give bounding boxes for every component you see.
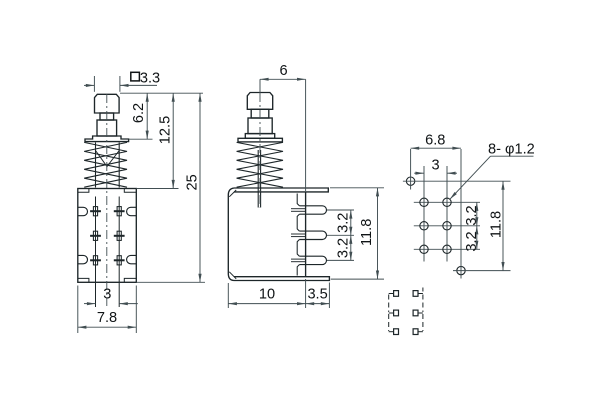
pcb hole r2c1 [420,222,428,230]
dimension 3.3 extension lines [93,76,95,92]
pcb hole r3c2 [443,245,451,253]
side view terminal stub 3 [291,258,306,260]
dimension 3.2 extension rows side view [327,209,354,211]
svg-text:25: 25 [185,174,201,190]
side view terminal prong 2 [299,231,326,239]
dimension 3.3 text [131,72,140,81]
svg-text:3.2: 3.2 [335,213,351,233]
pcb grid column line 1 [423,166,425,262]
hidden terminal connector left 1 [389,293,394,295]
front view pin column line right [118,197,120,308]
side view spring [237,142,283,187]
side view left wall [228,188,234,281]
hidden terminal connector right 2 [418,312,423,314]
dimension 3.5 line [306,303,330,305]
pcb outer hole bottom-right crosslines [453,270,511,272]
side view left wall chamfer top [229,190,236,197]
svg-text:3: 3 [103,287,111,303]
pcb outer hole top-left circle [406,177,414,185]
front view body notch top-left [78,189,89,193]
dimension 6.2 line [146,93,148,139]
svg-text:8- φ1.2: 8- φ1.2 [488,142,535,158]
dimension 7.8 extension lines [77,286,79,334]
front view body [78,189,137,283]
dimension 11.8 extensions side view [330,187,384,189]
dimension 3.3 line and arrows [84,84,94,86]
svg-text:6: 6 [279,63,287,79]
side view stem [257,150,259,208]
hidden terminal square right 3 [413,329,418,335]
front view stem right line [118,142,120,187]
front view pin row1 col1 [93,207,97,216]
hidden terminal square left 2 [394,310,399,316]
hidden terminal square right 1 [413,291,418,297]
side view top plate [234,188,328,192]
label 8-phi1.2 leader [450,156,491,199]
dimension 12.5 extension [136,188,178,190]
front view plunger cap [95,94,120,113]
pcb outer hole top-left crosslines [403,180,511,182]
front view body notch bottom-left [78,278,89,282]
svg-text:6.2: 6.2 [131,103,147,123]
svg-text:3.5: 3.5 [307,287,327,303]
pcb hole r1c2 [443,198,451,206]
dimension 11.8 line side view [377,188,379,279]
side view centerline [259,79,261,93]
side view terminal stub 1 [291,208,306,210]
dimension 6 extension line [305,79,307,191]
front view side cutout lower-right [127,255,137,263]
front view body notch top-right [124,189,136,193]
front view side cutout upper-left [78,207,88,215]
hidden terminal connector left 2 [389,312,394,314]
side view terminal prong 3 [299,256,326,264]
dimension 6.8 line [411,147,461,149]
hidden terminal connector right 3 [418,331,423,333]
front view centerline [106,94,108,306]
svg-text:12.5: 12.5 [158,116,174,144]
hidden terminal square left 1 [394,291,399,297]
dimension 3.2 line side view [350,210,352,260]
side view slot wall 1 [297,214,299,231]
hidden terminal square right 2 [413,310,418,316]
dimension 6.2 flange extension [129,138,153,140]
front view baseline extension [136,281,205,283]
svg-text:11.8: 11.8 [359,219,375,246]
svg-text:6.8: 6.8 [425,132,445,148]
dimension 7.8 line [78,326,137,328]
front view side cutout upper-right [127,207,137,215]
side view slot wall bottom [297,265,299,276]
hidden terminal dashed link right [422,288,424,294]
pcb hole r2c2 [443,222,451,230]
pcb hole r3c1 [420,245,428,253]
side view washer flange [238,138,282,142]
svg-text:3.2: 3.2 [464,231,480,251]
dimension 11.8 pcb line [502,181,504,270]
dimension 12.5 line [172,93,174,188]
front view pin row2 col2 [117,231,121,240]
front view stem left line [95,142,97,187]
front view cone [96,151,120,167]
side view right wall [305,192,307,277]
hidden terminal connector left 3 [389,331,394,333]
pcb grid row line 2 [414,225,480,227]
side view plunger cap [247,93,272,110]
svg-text:7.8: 7.8 [97,310,117,326]
side view terminal stub 2 [291,233,306,235]
svg-text:3: 3 [431,157,439,173]
front view side cutout lower-left [78,255,88,263]
front view plunger barrel [97,120,117,136]
pcb grid row line 3 [414,248,480,250]
front view plunger neck [100,113,114,120]
dimension 3.2 pcb line [476,202,478,249]
dimension 10 line [228,303,305,305]
side view plunger step [245,134,274,139]
svg-text:3.2: 3.2 [335,238,351,258]
front view plunger flange [85,136,129,142]
side view slot wall 2 [297,240,299,257]
front view spring [84,142,127,187]
hidden terminal connector right 1 [418,293,423,295]
front view pin row3 col1 [93,256,97,265]
svg-text:3.2: 3.2 [464,205,480,225]
side view plunger neck [251,109,269,118]
side view plunger barrel [248,118,272,134]
top reference line [120,92,203,94]
hidden terminal square left 3 [394,329,399,335]
front view pin column line left [95,197,97,308]
front view pin row1 col2 [117,207,121,216]
pcb grid column line 2 [446,166,448,262]
dimension 25 line [199,93,201,282]
side view terminal prong 1 [299,206,326,214]
svg-text:11.8: 11.8 [488,211,504,238]
side view left wall chamfer bottom [229,272,236,279]
front view pin row3 col2 [117,256,121,265]
front view pin row2 col1 [93,231,97,240]
dimension 10 and 3.5 extension lines [227,283,229,308]
dimension 6 line [260,78,306,80]
dimension 3 pcb line [414,172,424,174]
pcb grid row line 1 [414,201,480,203]
front view body notch bottom-right [124,278,136,282]
svg-text:10: 10 [259,287,275,303]
hidden terminal dashed link left [388,295,390,313]
pcb outer hole bottom-right circle [457,266,465,274]
side view slot wall top [297,194,299,206]
dimension 3 line [84,303,96,305]
pcb hole r1c1 [420,198,428,206]
side view bottom plate [234,277,329,281]
svg-text:3.3: 3.3 [140,70,160,86]
